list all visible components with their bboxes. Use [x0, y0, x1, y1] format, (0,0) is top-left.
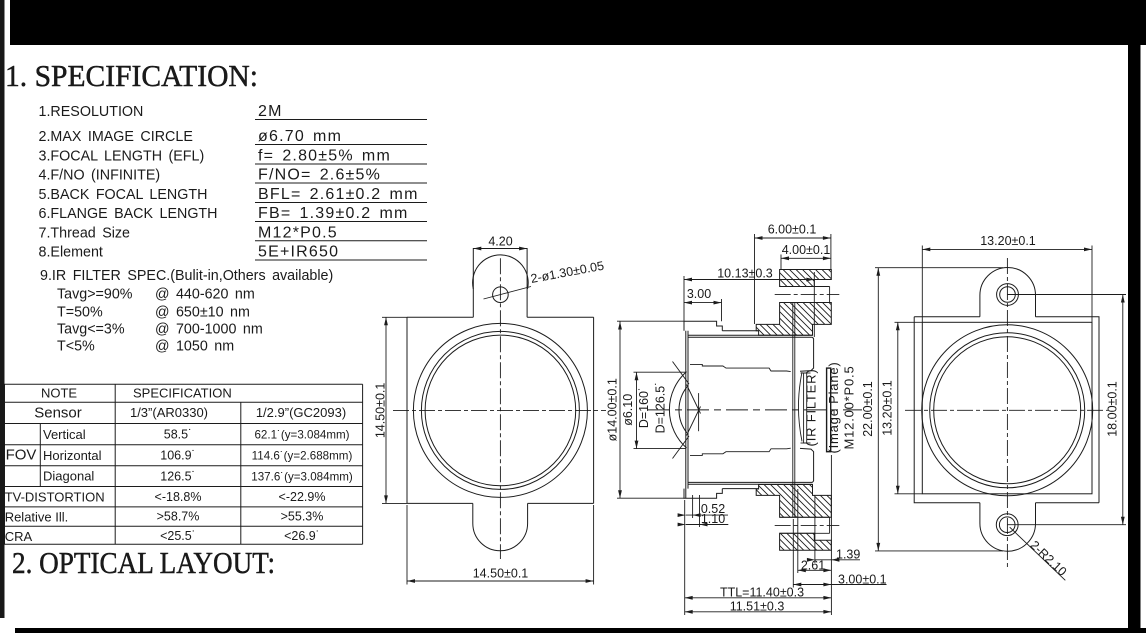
svg-text:BFL= 2.61±0.2 mm: BFL= 2.61±0.2 mm	[258, 186, 419, 203]
svg-text:4.F/NO (INFINITE): 4.F/NO (INFINITE)	[39, 168, 161, 184]
svg-text:ø6.70 mm: ø6.70 mm	[258, 128, 342, 145]
dim 13.20 left inner	[897, 322, 899, 494]
svg-text:TTL=11.40±0.3: TTL=11.40±0.3	[720, 586, 804, 600]
svg-text:1.10: 1.10	[701, 512, 725, 526]
dim 4.00	[781, 257, 831, 259]
svg-text:1. SPECIFICATION:: 1. SPECIFICATION:	[5, 58, 258, 93]
dim 1.39	[815, 559, 860, 561]
rear view inner square	[922, 322, 1092, 494]
rear view bottom ear hole	[996, 514, 1018, 536]
svg-text:Tavg>=90%: Tavg>=90%	[57, 287, 133, 303]
svg-text:2.MAX IMAGE CIRCLE: 2.MAX IMAGE CIRCLE	[39, 129, 193, 145]
svg-text:3.FOCAL LENGTH (EFL): 3.FOCAL LENGTH (EFL)	[39, 149, 205, 165]
svg-text:@ 650±10 nm: @ 650±10 nm	[155, 305, 250, 321]
scan strip left	[0, 0, 5, 618]
svg-text:T=50%: T=50%	[57, 305, 103, 321]
lens front view body square 14.50	[407, 317, 594, 503]
svg-text:f= 2.80±5% mm: f= 2.80±5% mm	[258, 148, 391, 165]
svg-text:4.20: 4.20	[488, 235, 512, 249]
svg-text:8.Element: 8.Element	[39, 245, 103, 261]
svg-text:TV-DISTORTION: TV-DISTORTION	[5, 490, 105, 505]
svg-text:M12.00*P0.5: M12.00*P0.5	[842, 366, 857, 450]
lens section barrel outline	[684, 321, 722, 498]
rear lens surface arc	[799, 372, 802, 441]
front view lens barrel circles	[413, 323, 587, 497]
svg-text:5.BACK FOCAL LENGTH: 5.BACK FOCAL LENGTH	[39, 187, 208, 203]
svg-text:3.00: 3.00	[687, 287, 711, 301]
svg-text:7.Thread Size: 7.Thread Size	[39, 225, 131, 241]
svg-text:137.6˙(y=3.084mm): 137.6˙(y=3.084mm)	[251, 471, 353, 484]
svg-text:62.1˙(y=3.084mm): 62.1˙(y=3.084mm)	[254, 429, 349, 442]
svg-text:1.39: 1.39	[836, 547, 860, 561]
svg-text:58.5˙: 58.5˙	[164, 428, 193, 442]
svg-text:114.6˙(y=2.688mm): 114.6˙(y=2.688mm)	[252, 450, 353, 463]
table grid	[5, 383, 363, 385]
svg-text:Relative Ill.: Relative Ill.	[5, 509, 69, 524]
svg-text:Sensor: Sensor	[34, 405, 82, 422]
svg-text:>55.3%: >55.3%	[281, 510, 324, 524]
dim 0.52	[686, 514, 728, 516]
dim 11.51	[685, 611, 832, 613]
rear view circles	[922, 325, 1093, 496]
rear view centerlines	[1006, 258, 1008, 567]
dim TTL 11.40	[685, 597, 832, 599]
rear view outer square	[914, 317, 1099, 503]
svg-text:1/3”(AR0330): 1/3”(AR0330)	[130, 405, 208, 420]
svg-text:CRA: CRA	[5, 529, 33, 544]
svg-text:Tavg<=3%: Tavg<=3%	[57, 322, 125, 338]
holder bore lines	[792, 303, 794, 518]
svg-text:M12*P0.5: M12*P0.5	[258, 224, 338, 241]
lens section rear flange	[800, 337, 814, 482]
dim 13.20 top	[922, 248, 1092, 250]
svg-text:<25.5˙: <25.5˙	[160, 529, 196, 543]
svg-text:18.00±0.1: 18.00±0.1	[1106, 381, 1120, 437]
svg-text:3.00±0.1: 3.00±0.1	[838, 572, 887, 586]
svg-text:13.20±0.1: 13.20±0.1	[980, 234, 1036, 248]
svg-text:9.IR FILTER SPEC.(Bulit-in,O: 9.IR FILTER SPEC.(Bulit-in,Others availa…	[40, 268, 333, 284]
dim dia14.00 left	[619, 322, 621, 499]
svg-text:>58.7%: >58.7%	[157, 510, 200, 524]
svg-text:14.50±0.1: 14.50±0.1	[473, 567, 529, 581]
svg-text:@ 1050 nm: @ 1050 nm	[155, 339, 234, 355]
lens section spacer steps	[690, 364, 791, 371]
svg-text:<-22.9%: <-22.9%	[279, 490, 326, 504]
svg-text:5E+IR650: 5E+IR650	[258, 244, 339, 261]
dim 2.61	[798, 569, 832, 571]
rear view top ear hole	[997, 284, 1019, 306]
front view centerlines	[393, 409, 606, 411]
dim 14.50 bottom	[407, 580, 594, 582]
svg-text:6.FLANGE BACK LENGTH: 6.FLANGE BACK LENGTH	[39, 206, 218, 222]
svg-text:Horizontal: Horizontal	[43, 448, 102, 463]
optical axis centerline	[648, 409, 862, 411]
lens second surface arc D=126.5	[679, 387, 687, 433]
svg-text:<-18.8%: <-18.8%	[155, 490, 202, 504]
front view bottom ear tab	[473, 503, 528, 550]
svg-text:FOV: FOV	[6, 447, 37, 464]
svg-text:D=126.5˙: D=126.5˙	[654, 382, 668, 434]
svg-text:2.61: 2.61	[801, 558, 825, 572]
svg-text:1/2.9”(GC2093): 1/2.9”(GC2093)	[256, 405, 346, 420]
svg-text:T<5%: T<5%	[57, 339, 95, 355]
svg-text:2M: 2M	[258, 103, 283, 120]
dim 3.00 cap	[684, 302, 722, 304]
holder plate bottom ear section	[780, 533, 832, 550]
svg-text:4.00±0.1: 4.00±0.1	[782, 243, 831, 257]
front view top ear tab	[473, 249, 527, 318]
leader 2-dia1.30 hole callout	[484, 287, 532, 300]
svg-text:2. OPTICAL LAYOUT:: 2. OPTICAL LAYOUT:	[12, 545, 275, 580]
leader 2-R2.10	[1010, 527, 1066, 580]
scan bar right	[1128, 0, 1141, 633]
dim 6.00 top	[755, 237, 831, 239]
svg-text:@ 700-1000 nm: @ 700-1000 nm	[155, 322, 263, 338]
scan bar top	[10, 0, 1146, 45]
svg-text:10.13±0.3: 10.13±0.3	[717, 267, 773, 281]
svg-text:13.20±0.1: 13.20±0.1	[881, 380, 895, 436]
svg-text:ø6.10: ø6.10	[621, 394, 635, 426]
svg-text:Diagonal: Diagonal	[43, 469, 94, 484]
svg-text:22.00±0.1: 22.00±0.1	[861, 381, 875, 437]
svg-text:ø14.00±0.1: ø14.00±0.1	[606, 378, 620, 441]
rear view top ear	[980, 268, 1036, 317]
svg-text:14.50±0.1: 14.50±0.1	[374, 383, 388, 439]
svg-text:106.9˙: 106.9˙	[160, 449, 195, 463]
front view top ear hole	[493, 287, 509, 303]
dim 10.13	[684, 279, 814, 281]
IR filter element	[804, 373, 807, 443]
svg-text:@ 440-620 nm: @ 440-620 nm	[155, 287, 255, 303]
dim dia6.10	[636, 372, 638, 448]
lens front element dome D=160	[669, 372, 686, 448]
dim 22.00 left	[877, 268, 879, 551]
holder plate top ear section	[780, 270, 832, 287]
svg-text:NOTE: NOTE	[41, 386, 77, 401]
svg-text:<26.9˙: <26.9˙	[284, 529, 320, 543]
rear view bottom ear	[980, 503, 1036, 552]
svg-text:SPECIFICATION: SPECIFICATION	[133, 386, 232, 401]
dim 4.20 tab width	[473, 247, 481, 251]
svg-text:Vertical: Vertical	[43, 427, 86, 442]
image plane bar	[827, 368, 831, 452]
holder hole centerlines	[775, 294, 840, 296]
svg-text:(IR FILTER): (IR FILTER)	[804, 369, 819, 447]
svg-text:126.5˙: 126.5˙	[160, 470, 195, 484]
dim 14.50 left vertical	[385, 317, 387, 503]
dim 18.00 right	[1122, 295, 1124, 525]
svg-text:F/NO= 2.6±5%: F/NO= 2.6±5%	[258, 167, 381, 184]
dim 3.00 flange	[793, 584, 886, 586]
svg-text:11.51±0.3: 11.51±0.3	[730, 599, 785, 613]
front view top ear dome arc	[473, 255, 529, 289]
dim 1.10	[686, 524, 729, 526]
svg-text:(Image Plane): (Image Plane)	[826, 361, 841, 453]
svg-text:6.00±0.1: 6.00±0.1	[768, 223, 817, 237]
fov ray lines	[673, 362, 690, 385]
svg-text:1.RESOLUTION: 1.RESOLUTION	[39, 104, 144, 120]
svg-text:FB= 1.39±0.2 mm: FB= 1.39±0.2 mm	[258, 205, 409, 222]
svg-text:D=160˙: D=160˙	[637, 387, 651, 428]
scan bar bottom	[15, 628, 1146, 633]
